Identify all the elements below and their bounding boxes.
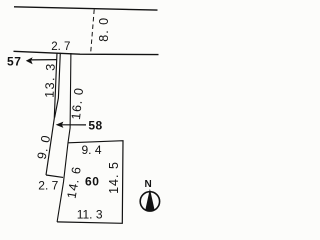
svg-text:58: 58: [88, 119, 102, 133]
svg-text:N: N: [145, 179, 153, 190]
svg-text:8. 0: 8. 0: [97, 17, 111, 42]
svg-text:57: 57: [7, 55, 21, 69]
svg-text:2. 7: 2. 7: [51, 41, 70, 53]
svg-text:9. 4: 9. 4: [81, 143, 101, 157]
svg-text:60: 60: [85, 175, 99, 189]
svg-text:13. 3: 13. 3: [43, 62, 58, 98]
svg-text:11. 3: 11. 3: [77, 208, 103, 222]
svg-text:14. 5: 14. 5: [107, 161, 121, 194]
svg-text:2. 7: 2. 7: [38, 178, 58, 192]
